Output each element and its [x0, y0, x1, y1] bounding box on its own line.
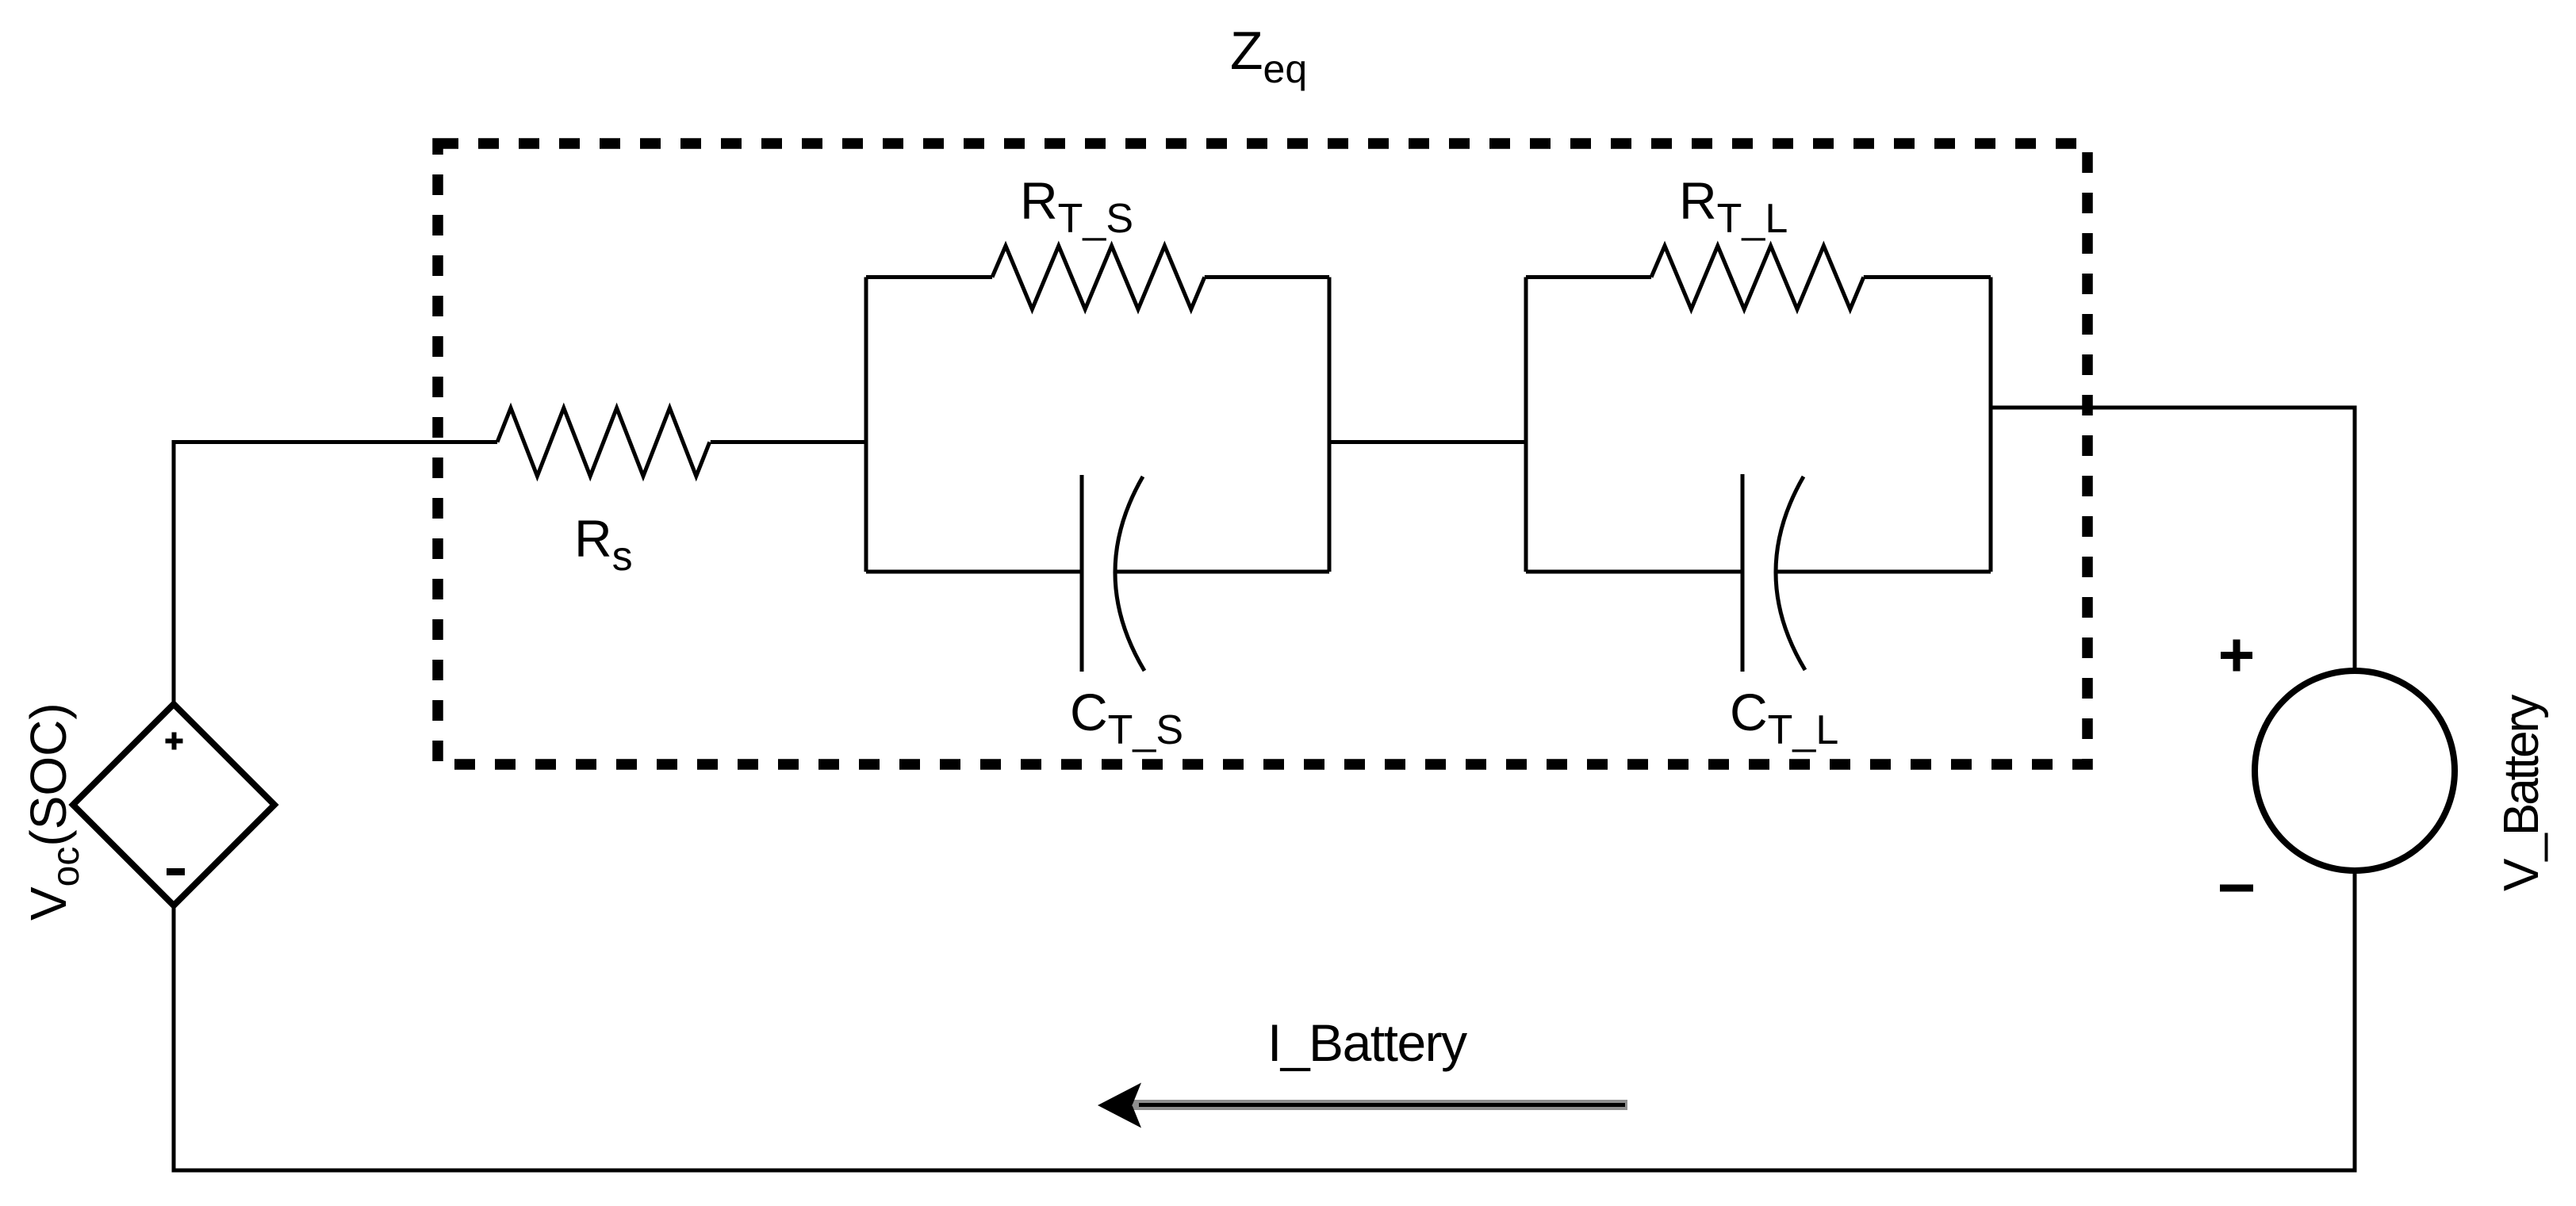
wire RC box 2 right edge — [1989, 278, 1993, 572]
wire RC box 1 top left segment — [866, 275, 992, 279]
resistor R_T_L — [1651, 246, 1864, 309]
wire RC box 2 top left segment — [1526, 275, 1651, 279]
wire RC box 2 left edge — [1524, 278, 1528, 572]
current arrow I_Battery head — [1098, 1083, 1141, 1128]
wire RC box 1 bottom right segment — [1117, 570, 1329, 574]
voltage source V_Battery — [2255, 671, 2455, 871]
resistor R_s — [497, 408, 710, 477]
dependent source V_oc(SOC) — [73, 704, 274, 905]
wire RC box 2 bottom left segment — [1526, 570, 1742, 574]
wire RC box 1 top right segment — [1205, 275, 1329, 279]
wire RC box 2 top right segment — [1864, 275, 1991, 279]
current arrow I_Battery shaft halo — [1133, 1100, 1627, 1110]
wire R_s to RC box 1 — [711, 440, 866, 444]
minus sign of V_Battery — [2220, 885, 2253, 892]
wire RC box 1 left edge — [864, 278, 868, 572]
wire left vertical from node A to V_oc plus terminal — [174, 442, 497, 705]
resistor R_T_S — [992, 246, 1205, 309]
dashed box Z_eq — [438, 144, 2087, 764]
wire RC box 1 bottom left segment — [866, 570, 1082, 574]
current arrow I_Battery shaft — [1139, 1103, 1625, 1107]
wire RC box 2 bottom right segment — [1777, 570, 1991, 574]
wire node between RC sections — [1329, 440, 1526, 444]
svg-text:V_Battery: V_Battery — [2494, 695, 2549, 891]
wire V_Battery bottom to ground rail — [174, 871, 2355, 1170]
capacitor C_T_S — [1082, 475, 1144, 672]
minus sign of V_oc(SOC) — [167, 868, 185, 875]
plus sign of V_Battery — [2221, 640, 2252, 672]
svg-text:I_Battery: I_Battery — [1267, 1013, 1467, 1072]
wire RC box 1 right edge — [1328, 278, 1332, 572]
plus sign of V_oc(SOC) — [166, 733, 183, 750]
capacitor C_T_L — [1742, 474, 1805, 672]
wire RC box 2 to V_Battery top — [1991, 408, 2355, 671]
